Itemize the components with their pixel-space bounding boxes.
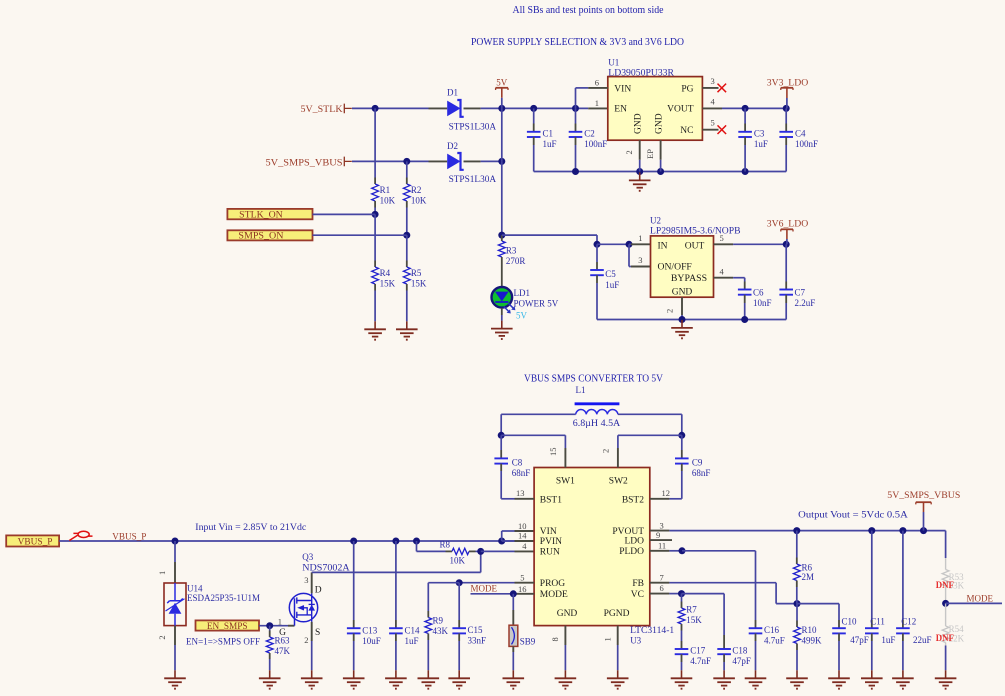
svg-text:GND: GND: [557, 609, 578, 619]
svg-text:C12: C12: [901, 617, 916, 627]
svg-text:PROG: PROG: [540, 579, 565, 589]
svg-text:All SBs and test points on bot: All SBs and test points on bottom side: [513, 5, 664, 16]
svg-text:3V3_LDO: 3V3_LDO: [767, 78, 809, 88]
svg-text:PLDO: PLDO: [619, 547, 644, 557]
svg-text:SW2: SW2: [609, 477, 628, 487]
svg-text:100nF: 100nF: [795, 139, 818, 149]
svg-text:C7: C7: [795, 287, 806, 297]
svg-text:2: 2: [157, 635, 167, 639]
svg-text:1uF: 1uF: [605, 280, 619, 290]
svg-text:OUT: OUT: [685, 241, 705, 251]
svg-text:15K: 15K: [686, 615, 702, 625]
svg-text:6: 6: [660, 583, 664, 593]
svg-text:MODE: MODE: [540, 590, 568, 600]
svg-text:10: 10: [518, 521, 527, 531]
svg-text:10K: 10K: [380, 195, 396, 205]
svg-text:GND: GND: [672, 288, 693, 298]
svg-text:12: 12: [662, 488, 671, 498]
svg-text:10K: 10K: [450, 555, 466, 565]
svg-text:VBUS_P: VBUS_P: [18, 536, 53, 546]
svg-text:100nF: 100nF: [584, 139, 607, 149]
svg-text:11: 11: [658, 541, 666, 551]
svg-text:3: 3: [304, 575, 308, 585]
svg-text:SW1: SW1: [556, 477, 575, 487]
svg-text:4.7nF: 4.7nF: [690, 656, 711, 666]
svg-text:14: 14: [518, 530, 527, 540]
svg-text:C9: C9: [692, 457, 703, 467]
svg-text:MODE: MODE: [471, 583, 498, 593]
svg-text:Q3: Q3: [302, 552, 313, 562]
svg-text:C3: C3: [754, 128, 765, 138]
svg-text:5: 5: [720, 233, 724, 243]
svg-text:16: 16: [518, 584, 527, 594]
svg-text:C6: C6: [753, 287, 764, 297]
svg-text:13: 13: [516, 488, 525, 498]
svg-text:1: 1: [278, 617, 282, 627]
svg-text:SB9: SB9: [520, 636, 536, 646]
svg-text:2: 2: [600, 449, 610, 453]
svg-text:2.2uF: 2.2uF: [795, 298, 816, 308]
svg-text:1uF: 1uF: [405, 636, 419, 646]
svg-text:5V_STLK: 5V_STLK: [301, 104, 344, 114]
svg-text:C11: C11: [870, 617, 885, 627]
svg-text:7: 7: [660, 573, 664, 583]
svg-text:1uF: 1uF: [543, 139, 557, 149]
svg-text:GND: GND: [655, 113, 665, 134]
svg-text:PG: PG: [681, 84, 693, 94]
svg-text:LDO: LDO: [624, 536, 644, 546]
svg-text:5: 5: [520, 573, 524, 583]
svg-text:C10: C10: [842, 617, 858, 627]
svg-text:C15: C15: [468, 625, 484, 635]
svg-text:3: 3: [711, 76, 715, 86]
svg-text:5V_SMPS_VBUS: 5V_SMPS_VBUS: [266, 157, 343, 167]
svg-text:C13: C13: [362, 625, 378, 635]
svg-text:R3: R3: [506, 246, 517, 256]
svg-text:R6: R6: [802, 563, 813, 573]
svg-text:POWER 5V: POWER 5V: [514, 299, 559, 309]
svg-text:1: 1: [595, 98, 599, 108]
svg-text:499K: 499K: [802, 636, 823, 646]
svg-text:VIN: VIN: [540, 527, 557, 537]
svg-text:FB: FB: [632, 579, 644, 589]
svg-text:C4: C4: [795, 128, 806, 138]
svg-text:C16: C16: [764, 625, 780, 635]
svg-text:270R: 270R: [506, 256, 526, 266]
svg-text:68nF: 68nF: [512, 468, 531, 478]
svg-text:R10: R10: [802, 625, 818, 635]
svg-text:U3: U3: [630, 636, 641, 646]
svg-text:R4: R4: [380, 268, 391, 278]
svg-text:U14: U14: [187, 583, 203, 593]
svg-text:10K: 10K: [411, 195, 427, 205]
svg-text:R8: R8: [440, 540, 451, 550]
svg-text:ESDA25P35-1U1M: ESDA25P35-1U1M: [187, 593, 260, 603]
svg-text:33nF: 33nF: [468, 635, 487, 645]
svg-text:BYPASS: BYPASS: [671, 274, 707, 284]
svg-text:U2: U2: [650, 215, 661, 225]
svg-text:DNF: DNF: [936, 634, 954, 644]
svg-text:2: 2: [665, 309, 675, 313]
svg-text:1uF: 1uF: [754, 139, 768, 149]
svg-text:5V_SMPS_VBUS: 5V_SMPS_VBUS: [887, 490, 960, 500]
svg-text:LTC3114-1: LTC3114-1: [630, 625, 674, 635]
svg-text:SMPS_ON: SMPS_ON: [238, 231, 284, 241]
svg-text:Output Vout = 5Vdc 0.5A: Output Vout = 5Vdc 0.5A: [798, 511, 908, 521]
svg-text:3: 3: [660, 520, 664, 530]
svg-text:8: 8: [550, 637, 560, 641]
svg-text:C1: C1: [543, 128, 554, 138]
svg-text:22uF: 22uF: [913, 635, 932, 645]
svg-text:IN: IN: [658, 241, 668, 251]
svg-text:47K: 47K: [275, 646, 291, 656]
svg-text:68nF: 68nF: [692, 468, 711, 478]
svg-text:1: 1: [157, 571, 167, 575]
svg-text:S: S: [315, 628, 320, 638]
svg-text:5V: 5V: [496, 77, 508, 87]
svg-text:EP: EP: [645, 149, 655, 159]
svg-text:BST1: BST1: [540, 496, 562, 506]
svg-text:1uF: 1uF: [881, 635, 895, 645]
svg-text:C2: C2: [584, 128, 595, 138]
svg-text:C5: C5: [605, 269, 616, 279]
svg-text:47pF: 47pF: [850, 635, 869, 645]
svg-text:VBUS_P: VBUS_P: [112, 531, 146, 541]
svg-text:G: G: [279, 628, 286, 638]
svg-text:2: 2: [304, 635, 308, 645]
svg-text:VBUS SMPS CONVERTER TO 5V: VBUS SMPS CONVERTER TO 5V: [524, 374, 663, 385]
svg-text:6: 6: [595, 77, 599, 87]
svg-text:C18: C18: [732, 646, 748, 656]
svg-text:BST2: BST2: [622, 496, 644, 506]
svg-text:EN_SMPS: EN_SMPS: [207, 621, 248, 631]
svg-text:MODE: MODE: [967, 593, 994, 603]
svg-text:1: 1: [638, 233, 642, 243]
svg-text:GND: GND: [634, 113, 644, 134]
svg-text:15: 15: [548, 448, 558, 457]
svg-text:ON/OFF: ON/OFF: [658, 263, 692, 273]
svg-text:L1: L1: [576, 385, 586, 395]
svg-text:LD39050PU33R: LD39050PU33R: [608, 67, 674, 77]
svg-text:PVIN: PVIN: [540, 537, 562, 547]
svg-text:2: 2: [624, 150, 634, 154]
svg-text:R9: R9: [433, 616, 444, 626]
svg-text:U1: U1: [608, 58, 619, 68]
svg-text:C8: C8: [512, 457, 523, 467]
svg-text:VC: VC: [631, 590, 644, 600]
svg-text:R5: R5: [411, 268, 422, 278]
svg-text:5: 5: [711, 118, 715, 128]
svg-text:10uF: 10uF: [362, 636, 381, 646]
svg-text:LD1: LD1: [514, 288, 531, 298]
svg-text:POWER SUPPLY SELECTION & 3V3 a: POWER SUPPLY SELECTION & 3V3 and 3V6 LDO: [471, 36, 684, 48]
svg-text:C14: C14: [405, 625, 421, 635]
svg-text:C17: C17: [690, 646, 706, 656]
svg-text:6.8µH 4.5A: 6.8µH 4.5A: [573, 418, 621, 428]
svg-text:D1: D1: [447, 88, 458, 98]
svg-text:R7: R7: [686, 604, 697, 614]
svg-text:STLK_ON: STLK_ON: [239, 209, 283, 219]
svg-text:10nF: 10nF: [753, 298, 772, 308]
svg-text:2M: 2M: [802, 572, 815, 582]
svg-text:3V6_LDO: 3V6_LDO: [767, 219, 809, 229]
svg-text:15K: 15K: [411, 279, 427, 289]
svg-text:EN=1=>SMPS OFF: EN=1=>SMPS OFF: [186, 636, 260, 646]
svg-text:D2: D2: [447, 141, 458, 151]
svg-text:VIN: VIN: [614, 84, 631, 94]
svg-text:1: 1: [602, 637, 612, 641]
svg-text:D: D: [315, 586, 322, 596]
svg-text:15K: 15K: [380, 279, 396, 289]
svg-text:Input Vin = 2.85V to 21Vdc: Input Vin = 2.85V to 21Vdc: [195, 523, 306, 533]
svg-text:STPS1L30A: STPS1L30A: [449, 174, 497, 184]
svg-text:3: 3: [638, 255, 642, 265]
svg-text:DNF: DNF: [936, 581, 954, 591]
svg-text:5V: 5V: [516, 310, 528, 320]
svg-text:VOUT: VOUT: [667, 105, 694, 115]
svg-text:PVOUT: PVOUT: [612, 527, 644, 537]
svg-text:R1: R1: [380, 185, 391, 195]
svg-text:NDS7002A: NDS7002A: [302, 562, 350, 572]
svg-text:43K: 43K: [433, 626, 449, 636]
svg-text:RUN: RUN: [540, 548, 560, 558]
svg-text:4.7uF: 4.7uF: [764, 636, 785, 646]
svg-text:47pF: 47pF: [732, 656, 751, 666]
svg-text:LP2985IM5-3.6/NOPB: LP2985IM5-3.6/NOPB: [650, 225, 741, 235]
svg-text:STPS1L30A: STPS1L30A: [449, 122, 497, 132]
svg-text:PGND: PGND: [604, 609, 630, 619]
svg-text:R2: R2: [411, 185, 422, 195]
svg-text:EN: EN: [614, 105, 627, 115]
svg-text:NC: NC: [680, 126, 693, 136]
